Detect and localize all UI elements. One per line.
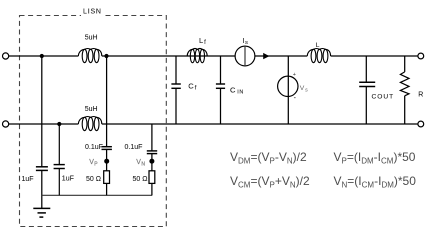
wire R branch: [404, 56, 406, 124]
svg-text:0.1uF: 0.1uF: [125, 144, 143, 151]
capacitor 0.1uF (P): [102, 147, 112, 150]
svg-text:R: R: [418, 92, 423, 99]
wire Cf branch: [175, 56, 177, 124]
wire CIN branch: [220, 56, 222, 124]
wire 0.1uF-N branch: [151, 124, 153, 195]
current source Is: [235, 46, 255, 66]
resistor 50 ohm (N): [149, 171, 155, 184]
node N1 junction dot: [57, 122, 61, 126]
resistor 50 ohm (P): [104, 171, 110, 184]
svg-text:1uF: 1uF: [22, 176, 34, 183]
node P1 junction dot: [40, 54, 44, 58]
svg-text:+: +: [293, 72, 296, 78]
svg-text:5uH: 5uH: [85, 106, 98, 113]
wire 1uF-P branch: [41, 56, 43, 208]
svg-text:50 Ω: 50 Ω: [133, 176, 148, 183]
terminal bottom right: [418, 121, 424, 127]
capacitor 0.1uF (N): [147, 151, 157, 154]
svg-text:5uH: 5uH: [85, 35, 98, 42]
terminal N left: [3, 121, 9, 127]
svg-text:50 Ω: 50 Ω: [86, 176, 101, 183]
wire Vs branch: [287, 56, 289, 124]
node VN dot: [149, 159, 154, 164]
arrow: [263, 53, 269, 59]
inductor 5uH (N line): [78, 117, 101, 131]
inductor L: [307, 49, 330, 63]
capacitor COUT: [359, 82, 375, 86]
svg-text:LISN: LISN: [83, 8, 102, 15]
svg-text:COUT: COUT: [372, 94, 395, 101]
capacitor 1uF (N side): [54, 165, 65, 169]
wire 0.1uF-P branch: [106, 56, 108, 195]
inductor 5uH (P line): [78, 49, 101, 63]
wire ground rail: [42, 194, 152, 196]
svg-text:Vs: Vs: [300, 85, 308, 93]
wire N rail: [9, 123, 418, 125]
svg-text:L: L: [316, 42, 320, 49]
voltage source Vs: [278, 76, 298, 96]
wire 1uF-N branch: [58, 124, 60, 195]
ground: [33, 208, 50, 217]
capacitor CIN: [216, 84, 225, 88]
terminal P left: [3, 53, 9, 59]
LISN box: [20, 16, 167, 227]
node VP dot: [104, 159, 109, 164]
capacitor 1uF (P side): [36, 167, 48, 171]
capacitor Cf: [171, 84, 180, 88]
resistor R zigzag: [400, 72, 409, 96]
svg-text:0.1uF: 0.1uF: [85, 144, 103, 151]
inductor Lf: [187, 49, 207, 63]
wire COUT branch: [365, 56, 367, 124]
wire P rail: [9, 55, 418, 57]
svg-text:1uF: 1uF: [62, 175, 74, 182]
terminal top right: [418, 53, 424, 59]
node P2 junction dot: [104, 54, 108, 58]
